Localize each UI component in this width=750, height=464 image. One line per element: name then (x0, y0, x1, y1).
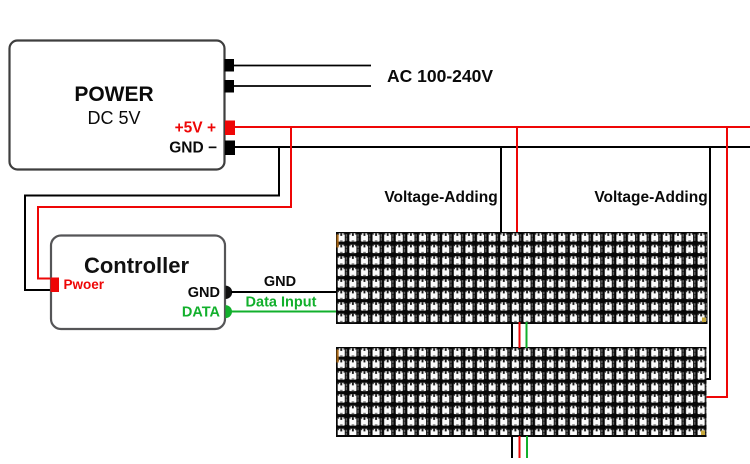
svg-text:Voltage-Adding: Voltage-Adding (384, 189, 497, 206)
svg-text:Controller: Controller (84, 253, 190, 278)
svg-text:AC 100-240V: AC 100-240V (387, 66, 493, 86)
wire GND below panel 2 (511, 436, 513, 458)
svg-text:GND: GND (188, 285, 220, 301)
svg-text:Pwoer: Pwoer (64, 277, 105, 292)
wire +5V right drop to panel 2 (706, 128, 727, 397)
wire DATA controller to panel (231, 311, 337, 313)
svg-text:Data Input: Data Input (246, 295, 317, 311)
controller DATA pin dot (226, 305, 233, 318)
wire AC line 1 (234, 65, 371, 67)
wire +5V bus (235, 126, 750, 128)
LED matrix panel 2 (336, 347, 707, 437)
controller GND pin dot (226, 286, 233, 299)
wire +5V to controller (38, 128, 291, 279)
wire GND drop to panel 1 (500, 148, 502, 233)
svg-text:DATA: DATA (182, 305, 221, 321)
controller power tab (51, 278, 60, 293)
wire data panel1 to panel2 (526, 322, 528, 348)
wire GND panel1 to panel2 (511, 322, 513, 348)
wire AC line 2 (234, 85, 371, 87)
wire +5V panel1 to panel2 (519, 322, 521, 348)
AC terminal tab N (225, 80, 235, 93)
wire +5V below panel 2 (519, 436, 521, 458)
+5V terminal tab (225, 121, 235, 136)
svg-text:GND −: GND − (169, 140, 217, 157)
svg-text:POWER: POWER (74, 83, 153, 106)
GND terminal tab (225, 141, 235, 156)
wire +5V drop to panel 1 (516, 128, 518, 233)
wire GND controller to panel (231, 291, 337, 293)
AC terminal tab L (225, 59, 235, 72)
power supply box PS1 (10, 41, 225, 170)
svg-text:+5V +: +5V + (175, 120, 216, 137)
svg-text:Voltage-Adding: Voltage-Adding (594, 189, 707, 206)
wire GND right drop to panel 2 (705, 148, 710, 379)
LED matrix panel 1 (336, 232, 708, 324)
wire GND bus (235, 146, 750, 148)
wire GND to controller (25, 148, 279, 290)
svg-text:DC 5V: DC 5V (87, 108, 140, 128)
svg-text:GND: GND (264, 274, 296, 290)
wire data below panel 2 (526, 436, 528, 458)
controller box U1 (51, 236, 225, 330)
